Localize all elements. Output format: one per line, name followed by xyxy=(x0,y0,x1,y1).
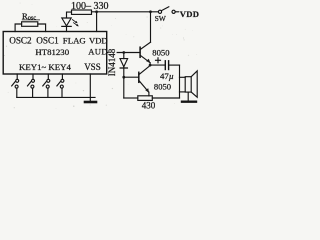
capacitor C1 47u xyxy=(156,59,161,61)
node junction Q1 collector xyxy=(149,10,152,13)
switch SW xyxy=(158,10,161,13)
key switch K2 xyxy=(32,74,34,79)
svg-text:VSS: VSS xyxy=(84,62,101,72)
wire VDD top rail xyxy=(92,11,159,13)
node output junction xyxy=(149,64,152,67)
wire Q1 collector riser xyxy=(150,12,152,42)
svg-text:FLAG: FLAG xyxy=(63,36,87,46)
wire Rosc left to OSC2 pin xyxy=(15,24,22,32)
wire diode drop xyxy=(123,53,125,59)
wire output to capacitor xyxy=(150,64,165,66)
wire Rosc right to OSC1 pin xyxy=(38,24,46,32)
svg-text:8050: 8050 xyxy=(152,47,169,57)
wire diode to bottom rail xyxy=(123,67,125,98)
svg-text:OSC2: OSC2 xyxy=(9,36,32,46)
transistor Q1 8050 xyxy=(139,47,141,57)
wire bottom left rail xyxy=(17,96,95,98)
svg-text:SW: SW xyxy=(155,14,167,23)
wire capacitor to speaker xyxy=(169,64,180,66)
resistor R2 430 xyxy=(138,96,153,101)
svg-text:KEY1~ KEY4: KEY1~ KEY4 xyxy=(19,62,72,72)
speaker LS1 xyxy=(185,77,191,92)
svg-text:8050: 8050 xyxy=(154,82,171,92)
decorative speckle (scan noise) xyxy=(4,3,197,109)
LED arrows xyxy=(72,20,76,23)
svg-text:47µ: 47µ xyxy=(160,71,174,81)
key switch K3 xyxy=(47,74,49,79)
wire VDD pin stub xyxy=(96,12,98,32)
transistor Q2 8050 xyxy=(138,72,140,82)
wire R1 left to LED anode xyxy=(67,12,72,18)
wire VSS drop xyxy=(89,74,91,101)
key switch K4 xyxy=(61,74,63,79)
node junction VDD pin xyxy=(95,10,98,13)
IC U1 HT81230 box xyxy=(3,32,107,75)
svg-text:430: 430 xyxy=(142,101,156,111)
LED D1 xyxy=(62,18,71,26)
svg-text:IN4148: IN4148 xyxy=(107,48,117,76)
label IN4148 xyxy=(109,47,117,76)
wire LED cathode to FLAG pin xyxy=(66,26,68,31)
ground VSS xyxy=(85,101,96,104)
key switch K1 xyxy=(16,74,18,79)
wire bottom right rail xyxy=(124,97,138,99)
svg-text:VDD: VDD xyxy=(180,9,200,19)
ground speaker xyxy=(182,100,196,102)
svg-text:VDD: VDD xyxy=(89,36,108,46)
wire 430 to speaker riser xyxy=(152,97,179,99)
svg-text:100– 330: 100– 330 xyxy=(71,1,109,12)
node junction diode top xyxy=(122,51,125,54)
wire speaker ground stub xyxy=(187,92,189,101)
node junction Q2 base xyxy=(122,76,125,79)
diode D2 IN4148 xyxy=(120,59,128,67)
resistor R_OSC xyxy=(22,22,38,27)
wire AUD output xyxy=(107,52,140,54)
svg-text:HT81230: HT81230 xyxy=(35,47,69,57)
svg-text:OSC1: OSC1 xyxy=(36,36,59,46)
resistor R1 100-330 xyxy=(72,10,92,14)
wire speaker stubs xyxy=(180,76,186,78)
svg-text:AUD: AUD xyxy=(88,46,108,56)
wire Q2 base xyxy=(124,76,139,78)
wire speaker feed riser xyxy=(179,65,181,98)
